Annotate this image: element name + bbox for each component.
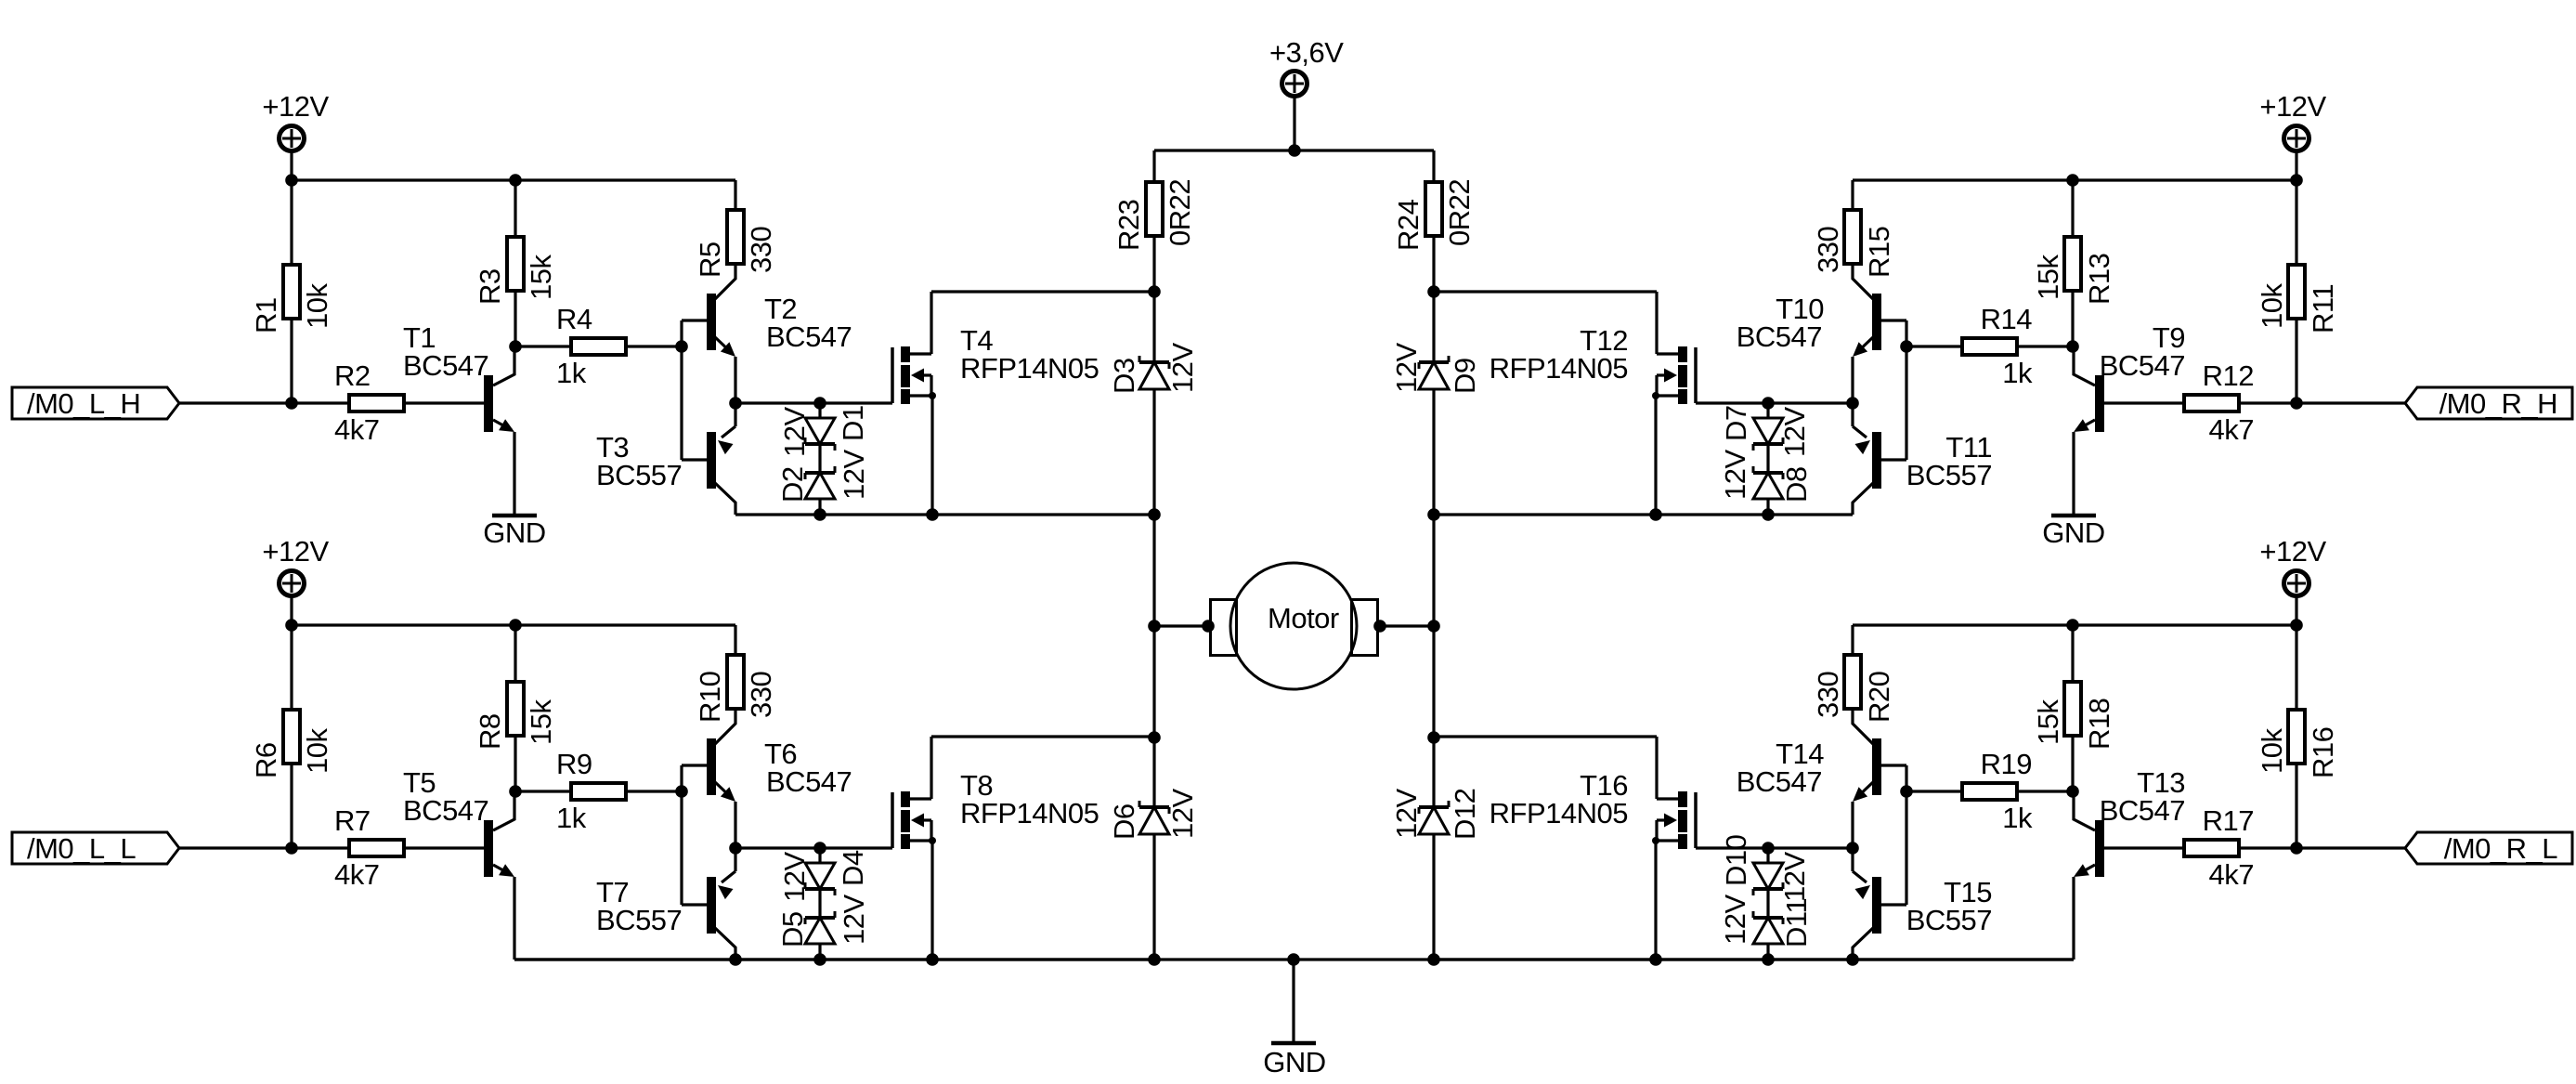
junction [1762,953,1775,966]
wire [2071,180,2074,235]
svg-text:GND: GND [2042,516,2104,549]
wire [514,737,516,791]
wire [734,802,736,848]
svg-text:R2: R2 [334,359,371,392]
wire [290,180,293,263]
wire +12V rail [292,623,735,626]
wire [1293,97,1295,150]
svg-text:BC557: BC557 [596,904,682,936]
svg-text:D5: D5 [776,911,809,947]
wire [2295,180,2297,263]
svg-text:12V: 12V [1719,450,1751,500]
svg-text:R10: R10 [694,671,726,723]
resistor R3 15k [474,237,557,305]
transistor T5 BC547 (NPN) [403,766,514,877]
svg-text:330: 330 [745,227,777,273]
zener diode D10 12V [1753,848,1783,895]
wire drain [931,735,1154,738]
svg-text:R18: R18 [2083,699,2115,750]
svg-text:4k7: 4k7 [334,858,379,891]
wire [2019,790,2073,792]
wire [1152,150,1155,180]
wire drain [1434,735,1657,738]
svg-text:15k: 15k [2032,699,2064,745]
svg-text:1k: 1k [2002,802,2033,834]
wire net /M0_L_H [179,401,347,404]
wire [1432,515,1435,626]
wire [2295,151,2297,180]
svg-text:D4: D4 [837,850,869,886]
wire [2071,292,2074,346]
wire [735,958,1154,960]
resistor R1 10k [250,265,333,333]
transistor T7 BC557 (PNP) [596,848,735,960]
wire [514,180,516,235]
junction [729,953,742,966]
power +12V supply (RB) [2259,535,2326,596]
wire [734,625,736,653]
svg-text:D12: D12 [1449,789,1481,840]
junction [1427,285,1440,298]
junction output node [1846,842,1859,855]
wire [290,765,293,848]
svg-text:0R22: 0R22 [1164,179,1196,246]
wire [1880,764,1906,766]
wire [1906,790,1960,792]
zener diode D5 12V [805,911,835,960]
zener diode D8 12V [1753,466,1783,515]
svg-text:BC547: BC547 [766,320,852,353]
wire gate node [735,846,892,849]
resistor R10 330 [694,655,777,723]
wire [682,764,708,766]
resistor R14 1k [1962,303,2033,389]
svg-text:15k: 15k [2032,255,2064,300]
resistor R8 15k [474,682,557,750]
junction [1148,620,1161,633]
wire net /M0_R_H [2241,401,2405,404]
junction [1287,953,1300,966]
junction [1649,508,1662,521]
svg-text:330: 330 [745,672,777,718]
transistor T2 BC547 (NPN) [707,265,852,357]
junction [813,842,826,855]
wire [1880,319,1906,321]
zener diode D6 12V [1139,801,1169,960]
ground GND (center) [1263,1043,1325,1078]
svg-text:/M0_L_L: /M0_L_L [27,832,136,865]
zener diode D7 12V [1753,403,1783,451]
svg-text:10k: 10k [2256,283,2288,329]
svg-text:D11: D11 [1780,898,1813,947]
wire base link [680,765,683,905]
svg-text:R1: R1 [250,297,282,333]
junction [1427,508,1440,521]
wire [735,513,1154,516]
svg-text:BC547: BC547 [403,794,488,827]
svg-text:BC547: BC547 [766,765,852,798]
svg-text:RFP14N05: RFP14N05 [1490,352,1628,385]
wire base link [680,320,683,460]
svg-text:RFP14N05: RFP14N05 [960,797,1099,829]
wire [514,625,516,680]
wire drain [1434,290,1657,293]
junction [1427,731,1440,744]
junction output node [729,397,742,410]
transistor T8 RFP14N05 (N-MOSFET) [892,737,1099,960]
transistor T3 BC557 (PNP) [596,403,735,515]
wire [2295,320,2297,403]
wire [2019,345,2073,347]
svg-text:D9: D9 [1449,358,1481,394]
svg-text:R13: R13 [2083,254,2115,305]
wire [2104,846,2182,849]
svg-text:+12V: +12V [262,535,329,568]
resistor R23 0R22 [1112,179,1196,251]
wire [1152,626,1155,738]
wire [1432,150,1435,180]
svg-text:R24: R24 [1392,199,1425,251]
svg-text:R12: R12 [2203,359,2254,392]
svg-text:10k: 10k [301,728,333,774]
svg-text:R15: R15 [1863,227,1895,278]
junction output node [1846,397,1859,410]
junction [1427,953,1440,966]
svg-text:R17: R17 [2203,804,2254,837]
wire +3,6V rail [1154,149,1295,151]
svg-text:12V: 12V [1390,789,1423,839]
wire [734,180,736,208]
svg-text:D6: D6 [1108,803,1140,840]
wire [1432,238,1435,292]
svg-text:/M0_R_L: /M0_R_L [2444,832,2558,865]
wire net /M0_R_L [2241,846,2405,849]
resistor R4 1k [556,303,626,389]
svg-text:12V: 12V [1166,789,1199,839]
junction [2066,340,2079,353]
junction [1148,285,1161,298]
wire [1851,357,1854,403]
svg-text:/M0_L_H: /M0_L_H [27,387,140,420]
junction [1148,731,1161,744]
wire [406,401,484,404]
wire [1906,345,1960,347]
junction [675,340,688,353]
resistor R12 4k7 [2184,359,2254,446]
svg-text:R8: R8 [474,713,506,750]
resistor R15 330 [1812,210,1895,278]
svg-text:15k: 15k [525,699,557,745]
svg-text:1k: 1k [556,802,587,834]
wire motor lead [1154,624,1209,627]
svg-text:10k: 10k [301,283,333,329]
svg-text:R3: R3 [474,268,506,305]
power +3,6V supply [1269,36,1344,97]
resistor R7 4k7 [334,804,404,891]
wire [2104,401,2182,404]
junction [1202,620,1215,633]
wire [1766,889,1769,918]
svg-text:R19: R19 [1981,748,2032,780]
junction [2066,619,2079,632]
svg-text:330: 330 [1812,227,1844,273]
wire [682,319,708,321]
svg-text:+12V: +12V [2259,90,2326,123]
svg-text:BC557: BC557 [596,459,682,491]
power +12V supply (LB) [262,535,329,596]
wire [514,292,516,346]
wire [1853,958,2074,960]
svg-text:R4: R4 [556,303,592,335]
svg-text:1k: 1k [556,357,587,389]
wire [1851,802,1854,848]
transistor T16 RFP14N05 (N-MOSFET) [1490,737,1696,960]
junction [285,174,298,187]
wire [2295,765,2297,848]
wire [515,345,569,347]
transistor T10 BC547 (NPN) [1737,265,1881,357]
svg-text:BC557: BC557 [1906,459,1992,491]
wire [682,458,708,461]
wire motor lead [1379,624,1434,627]
wire [682,903,708,906]
zener diode D12 12V [1419,801,1449,960]
wire [1292,960,1295,1042]
junction [1762,397,1775,410]
ground GND [483,516,545,549]
svg-text:1k: 1k [2002,357,2033,389]
transistor T12 RFP14N05 (N-MOSFET) [1490,292,1696,515]
svg-text:15k: 15k [525,255,557,300]
junction [675,785,688,798]
wire [818,444,821,473]
junction [1762,508,1775,521]
input flag /M0_R_L [2405,832,2572,865]
junction [813,508,826,521]
input flag /M0_R_H [2405,387,2572,420]
wire [514,958,735,960]
junction [926,508,939,521]
resistor R5 330 [694,210,777,278]
svg-text:/M0_R_H: /M0_R_H [2439,387,2557,420]
wire [1432,626,1435,738]
input flag /M0_L_H [12,387,179,420]
resistor R18 15k [2032,682,2115,750]
wire gate node [1696,401,1853,404]
svg-text:R11: R11 [2307,284,2339,333]
resistor R16 10k [2256,710,2339,778]
resistor R13 15k [2032,237,2115,305]
junction output node [729,842,742,855]
svg-text:+12V: +12V [262,90,329,123]
svg-text:12V: 12V [1390,343,1423,393]
resistor R17 4k7 [2184,804,2254,891]
resistor R20 330 [1812,655,1895,723]
junction [1900,785,1913,798]
power +12V supply (RT) [2259,90,2326,151]
junction [1373,620,1386,633]
wire [1851,625,1854,653]
junction [2290,842,2303,855]
junction [813,397,826,410]
svg-text:D2: D2 [776,466,809,503]
wire [290,596,293,625]
svg-text:12V: 12V [1166,343,1199,393]
junction [509,174,522,187]
junction [1427,620,1440,633]
junction [2290,397,2303,410]
wire [1434,958,1853,960]
svg-text:Motor: Motor [1268,602,1339,634]
wire [2295,625,2297,708]
junction [813,953,826,966]
wire [628,345,682,347]
wire [406,846,484,849]
wire [2071,737,2074,791]
svg-text:12V: 12V [1719,895,1751,945]
svg-text:10k: 10k [2256,728,2288,774]
wire [515,790,569,792]
resistor R24 0R22 [1392,179,1476,251]
resistor R6 10k [250,710,333,778]
resistor R9 1k [556,748,626,834]
svg-text:+12V: +12V [2259,535,2326,568]
svg-text:+3,6V: +3,6V [1269,36,1344,69]
wire [2072,432,2075,514]
wire +12V rail [292,178,735,181]
transistor T1 BC547 (NPN) [403,321,514,432]
svg-text:BC547: BC547 [403,349,488,382]
svg-text:RFP14N05: RFP14N05 [1490,797,1628,829]
motor terminal [1211,600,1237,656]
svg-text:R7: R7 [334,804,371,837]
svg-text:0R22: 0R22 [1443,179,1476,246]
wire [290,320,293,403]
wire [628,790,682,792]
wire [818,889,821,918]
transistor T11 BC557 (PNP) [1853,403,1992,515]
wire [513,432,515,514]
svg-text:4k7: 4k7 [2209,858,2254,891]
transistor T9 BC547 (NPN) [2074,321,2185,432]
svg-text:BC547: BC547 [2100,794,2185,827]
svg-text:12V: 12V [838,450,870,500]
wire [290,151,293,180]
motor terminal [1352,600,1378,656]
junction [1900,340,1913,353]
wire drain [931,290,1154,293]
svg-text:12V: 12V [838,895,870,945]
svg-text:BC557: BC557 [1906,904,1992,936]
svg-text:D3: D3 [1108,358,1140,394]
svg-text:R9: R9 [556,748,592,780]
wire gate node [735,401,892,404]
wire [1851,180,1854,208]
wire [1152,738,1155,807]
wire [1434,513,1853,516]
zener diode D3 12V [1139,292,1169,515]
wire base link [1905,765,1907,905]
wire base link [1905,320,1907,460]
junction [2066,174,2079,187]
svg-text:R20: R20 [1863,671,1895,723]
wire [1152,238,1155,292]
junction [509,785,522,798]
svg-text:330: 330 [1812,672,1844,718]
svg-text:D7: D7 [1720,405,1752,441]
svg-text:4k7: 4k7 [2209,413,2254,446]
junction [509,619,522,632]
junction [1762,842,1775,855]
junction [509,340,522,353]
svg-text:12V: 12V [1778,852,1811,902]
svg-text:D1: D1 [837,405,869,441]
junction [2290,174,2303,187]
wire net /M0_L_L [179,846,347,849]
svg-text:BC547: BC547 [2100,349,2185,382]
wire [734,357,736,403]
zener diode D2 12V [805,466,835,515]
junction [285,397,298,410]
junction [1148,508,1161,521]
wire GND rail [514,958,2074,960]
wire +12V rail [1853,623,2296,626]
svg-text:R16: R16 [2307,727,2339,778]
wire [290,625,293,708]
svg-text:D10: D10 [1720,834,1752,886]
zener diode D1 12V [805,403,835,451]
svg-text:12V: 12V [778,852,811,902]
wire [1880,458,1906,461]
motor M (DC motor) [1230,563,1357,689]
transistor T14 BC547 (NPN) [1737,710,1881,802]
resistor R2 4k7 [334,359,404,446]
zener diode D9 12V [1419,292,1449,515]
wire [1880,903,1906,906]
junction [2290,619,2303,632]
junction [2066,785,2079,798]
wire [513,877,515,960]
wire +3,6V rail [1294,149,1434,151]
ground GND [2042,516,2104,549]
wire +12V rail [1853,178,2296,181]
svg-text:R23: R23 [1112,200,1145,251]
resistor R11 10k [2256,265,2339,333]
junction [285,619,298,632]
svg-text:12V: 12V [778,407,811,457]
svg-text:4k7: 4k7 [334,413,379,446]
svg-text:R14: R14 [1981,303,2033,335]
wire [2072,877,2075,960]
power +12V supply (LT) [262,90,329,151]
junction [1288,144,1301,157]
wire [1152,515,1155,626]
wire [1766,444,1769,473]
junction [926,953,939,966]
svg-text:D8: D8 [1780,466,1813,503]
wire [2071,625,2074,680]
wire [1432,738,1435,807]
svg-text:R6: R6 [250,742,282,778]
svg-text:12V: 12V [1778,407,1811,457]
transistor T15 BC557 (PNP) [1853,848,1992,960]
wire [2295,596,2297,625]
zener diode D4 12V [805,848,835,895]
input flag /M0_L_L [12,832,179,865]
svg-text:BC547: BC547 [1737,320,1822,353]
junction [285,842,298,855]
wire gate node [1696,846,1853,849]
